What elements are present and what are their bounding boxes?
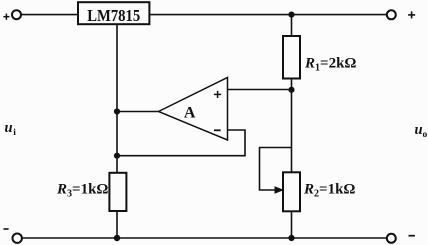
svg-text:u: u [415, 122, 423, 138]
svg-text:R2=1kΩ: R2=1kΩ [303, 182, 355, 200]
svg-text:u: u [5, 120, 13, 136]
svg-text:A: A [184, 104, 196, 121]
svg-text:o: o [423, 130, 428, 140]
svg-text:R3=1kΩ: R3=1kΩ [56, 182, 108, 200]
svg-text:i: i [13, 128, 16, 138]
svg-text:LM7815: LM7815 [87, 6, 140, 25]
svg-text:R1=2kΩ: R1=2kΩ [304, 56, 356, 74]
